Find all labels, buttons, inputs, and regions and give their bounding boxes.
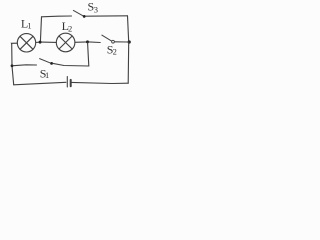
svg-text:1: 1 bbox=[45, 70, 49, 80]
node B junction dot bbox=[11, 64, 14, 67]
svg-text:3: 3 bbox=[94, 5, 98, 15]
switch S1 pivot dot bbox=[50, 62, 53, 65]
wire: node C to S2 left contact bbox=[89, 41, 100, 44]
lamp L2 circle bbox=[56, 33, 75, 52]
wire: right rail down to node D bbox=[128, 16, 129, 42]
switch S3 blade bbox=[73, 10, 83, 16]
svg-text:2: 2 bbox=[68, 24, 72, 34]
wire: left rail corner to lamp L1 bbox=[12, 42, 18, 44]
switch S2 pivot ring bbox=[112, 40, 115, 43]
node C junction dot bbox=[86, 40, 89, 43]
wire: lamp L1 to node A bbox=[36, 41, 40, 43]
node D junction dot bbox=[128, 40, 131, 43]
switch S1 blade bbox=[40, 59, 51, 64]
lamp L1 cross stroke NW-SE bbox=[20, 36, 33, 49]
battery positive plate (long thin) bbox=[66, 77, 68, 88]
wire: node B to S1 left contact bbox=[13, 64, 36, 67]
wire: S3 right contact to top-right corner bbox=[86, 15, 128, 17]
wire: S1 to riser corner below node C bbox=[53, 63, 89, 66]
switch S3 pivot dot bbox=[83, 15, 86, 18]
svg-text:1: 1 bbox=[27, 21, 31, 31]
lamp L1 circle bbox=[17, 34, 35, 52]
lamp L1 cross stroke NE-SW bbox=[20, 36, 33, 49]
wire: riser from corner up to node C bbox=[88, 43, 89, 66]
lamp L2 cross stroke NW-SE bbox=[59, 36, 72, 49]
svg-text:2: 2 bbox=[113, 47, 117, 57]
wire: top horizontal to S3 left contact bbox=[42, 15, 72, 18]
wire: battery negative to bottom-left corner bbox=[14, 82, 66, 85]
wire: right rail from node D down to bottom-right corner bbox=[127, 42, 130, 83]
battery negative plate (short thick) bbox=[70, 80, 72, 86]
switch S2 blade bbox=[102, 35, 112, 41]
wire: node A to lamp L2 bbox=[42, 41, 57, 43]
node A junction dot bbox=[39, 41, 42, 44]
wire: S2 ring to node D bbox=[115, 41, 128, 43]
wire: riser from node A up to top-left corner bbox=[40, 17, 41, 42]
wire: left rail up from bottom-left corner through node B bbox=[12, 44, 14, 85]
wire: bottom right to battery positive bbox=[72, 82, 129, 83]
wire: lamp L2 to node C bbox=[75, 41, 88, 43]
lamp L2 cross stroke NE-SW bbox=[59, 36, 72, 49]
